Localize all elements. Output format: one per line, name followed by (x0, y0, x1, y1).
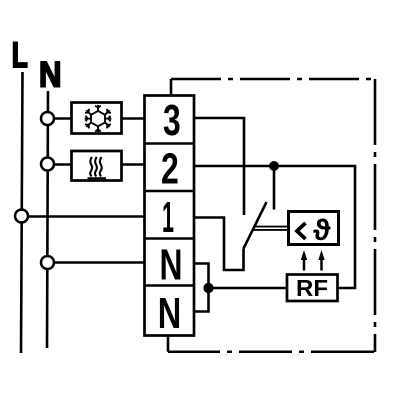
svg-text:N: N (39, 56, 62, 95)
svg-text:N: N (158, 290, 182, 338)
svg-text:2: 2 (161, 146, 179, 194)
svg-text:RF: RF (296, 275, 328, 301)
svg-text:N: N (160, 242, 183, 290)
svg-text:3: 3 (163, 97, 181, 145)
svg-text:1: 1 (162, 194, 174, 242)
svg-text:ϑ: ϑ (313, 214, 331, 247)
svg-text:L: L (12, 36, 28, 75)
